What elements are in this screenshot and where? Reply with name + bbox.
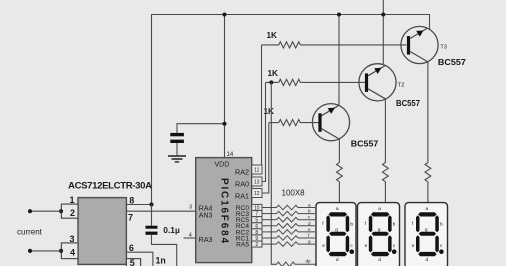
pin 5 box (252, 217, 262, 223)
svg-text:100X8: 100X8 (282, 189, 306, 198)
pin 2 box (252, 241, 262, 247)
transistor T3 BC557 (401, 26, 466, 67)
pin 8 wire (126, 204, 151, 206)
svg-text:BC557: BC557 (351, 138, 379, 148)
pin 13 box (252, 177, 262, 186)
svg-text:d: d (336, 257, 339, 263)
svg-text:8: 8 (129, 195, 134, 205)
display DIS2 7-segment (358, 203, 400, 269)
pin 10 box (252, 204, 262, 210)
wire RA1 to R1 (262, 123, 269, 193)
svg-text:1: 1 (70, 195, 75, 205)
svg-text:e: e (308, 227, 311, 232)
resistor R3 1K (T3 base) (262, 31, 407, 48)
svg-text:d: d (378, 257, 381, 263)
pin 5 box (126, 259, 140, 269)
svg-text:13: 13 (254, 180, 260, 186)
svg-text:RA2: RA2 (235, 168, 249, 177)
display DIS1 7-segment (316, 203, 356, 269)
pin 11 box (252, 165, 262, 174)
pin 8 box (252, 229, 262, 235)
svg-text:RA3: RA3 (199, 237, 213, 244)
wire T1 emitter drop (338, 15, 340, 107)
svg-text:b: b (350, 222, 353, 228)
svg-text:RA4: RA4 (199, 205, 213, 212)
svg-text:PIC16F684: PIC16F684 (219, 178, 230, 243)
svg-text:b: b (308, 209, 311, 214)
wire T2 emitter drop (382, 15, 384, 65)
wire RC row 6 (262, 243, 277, 245)
display DIS3 7-segment (405, 203, 448, 269)
svg-text:RA0: RA0 (235, 179, 249, 188)
node pin8/VCC dot (149, 202, 153, 206)
pin 1-2 box (59, 195, 78, 218)
svg-text:11: 11 (254, 168, 259, 174)
svg-text:a: a (426, 207, 429, 212)
svg-text:g: g (308, 239, 311, 244)
pin 3-4 box (59, 234, 78, 259)
svg-text:dp: dp (306, 258, 312, 263)
svg-text:BC557: BC557 (438, 57, 466, 67)
pin 9 box (252, 235, 262, 241)
wire RC row 0 (262, 207, 277, 209)
resistor net row f (277, 233, 316, 240)
transistor T1 BC557 (312, 104, 378, 149)
pin 7 box (252, 211, 262, 217)
op-amp U2 PIC16F684 body (196, 158, 252, 263)
svg-text:1K: 1K (268, 69, 279, 78)
svg-text:current: current (17, 227, 43, 236)
transistor T2 BC557 (359, 64, 420, 108)
resistor anode R5 (383, 163, 389, 182)
svg-text:RA5: RA5 (236, 242, 249, 249)
svg-text:3: 3 (189, 205, 192, 211)
svg-text:e: e (322, 244, 325, 249)
resistor anode R6 (425, 163, 431, 182)
resistor net row c (277, 215, 316, 222)
wire RA2 to R3 (261, 45, 263, 166)
svg-text:RA1: RA1 (235, 191, 249, 200)
svg-text:4: 4 (189, 232, 192, 238)
svg-text:a: a (378, 207, 381, 212)
wire RC row 5 (262, 237, 277, 239)
svg-text:g: g (335, 228, 338, 233)
svg-text:3: 3 (70, 234, 75, 244)
resistor net row a (277, 203, 316, 210)
svg-text:0.1µ: 0.1µ (163, 225, 180, 235)
svg-text:7: 7 (128, 212, 133, 222)
svg-text:d: d (308, 221, 311, 226)
pin 4 RA3 (184, 237, 196, 239)
svg-text:AN3: AN3 (199, 212, 213, 219)
resistor net row g (277, 239, 316, 246)
resistor net row d (277, 221, 316, 228)
resistor net row e (277, 227, 316, 234)
wire VCC top rail (152, 15, 430, 205)
svg-text:ACS712ELCTR-30A: ACS712ELCTR-30A (68, 181, 152, 192)
resistor R1 1K (T1 base) (264, 107, 319, 126)
svg-text:b: b (393, 222, 396, 228)
node terminal 1 (28, 209, 32, 213)
svg-text:a: a (336, 207, 339, 212)
svg-text:g: g (425, 228, 428, 233)
pin 6 wire (126, 252, 152, 266)
pin 12 box (252, 189, 262, 198)
wire RC row 3 (262, 225, 277, 227)
svg-text:4: 4 (70, 247, 75, 257)
wire T2 collector drop (384, 99, 386, 162)
svg-text:e: e (365, 244, 368, 249)
svg-text:2: 2 (70, 208, 75, 218)
ground (168, 156, 186, 162)
resistor R2 1K (T2 base) (266, 69, 365, 86)
svg-text:BC557: BC557 (396, 98, 420, 108)
node R2 junction dot (269, 80, 273, 84)
svg-text:2: 2 (255, 242, 258, 248)
wire RC row 1 (262, 213, 277, 215)
svg-text:b: b (440, 222, 443, 228)
svg-text:T2: T2 (398, 82, 405, 88)
pin 6 box (252, 223, 262, 229)
svg-text:12: 12 (254, 191, 260, 197)
capacitor C1 (VDD decoupling) (170, 133, 184, 155)
svg-text:T3: T3 (440, 45, 447, 51)
wire VCC stub to top edge (382, 0, 384, 15)
wire terminal 1 (30, 210, 61, 212)
wire RC row 2 (262, 219, 277, 221)
resistor net row dp (277, 258, 318, 266)
wire dp bus (271, 82, 276, 264)
svg-text:5: 5 (130, 258, 135, 266)
wire T1 collector drop (338, 139, 340, 163)
svg-text:g: g (378, 228, 381, 233)
node rail junction dots (223, 13, 227, 17)
resistor net row b (277, 209, 316, 216)
op-amp U1 ACS712 body (78, 198, 126, 265)
wire terminal 2 (30, 250, 61, 252)
wire RA0 to R2 (262, 82, 266, 181)
wire RC row 4 (262, 231, 277, 233)
svg-text:1n: 1n (156, 256, 166, 266)
wire VDD drop (224, 15, 226, 158)
wire T3 collector drop (427, 62, 429, 163)
wire VDD cap branch (177, 124, 225, 133)
svg-text:d: d (426, 257, 429, 263)
node VDD branch dot (223, 122, 227, 126)
svg-text:1K: 1K (267, 31, 278, 40)
pin 7 wire to AN3 (126, 210, 195, 212)
svg-text:14: 14 (227, 152, 234, 158)
svg-text:VDD: VDD (215, 162, 230, 169)
capacitor C2 0.1u (146, 205, 180, 267)
svg-text:6: 6 (129, 243, 134, 253)
svg-text:a: a (308, 203, 311, 208)
node terminal 2 (28, 249, 32, 253)
svg-text:e: e (412, 244, 415, 249)
resistor anode R4 (337, 163, 343, 182)
